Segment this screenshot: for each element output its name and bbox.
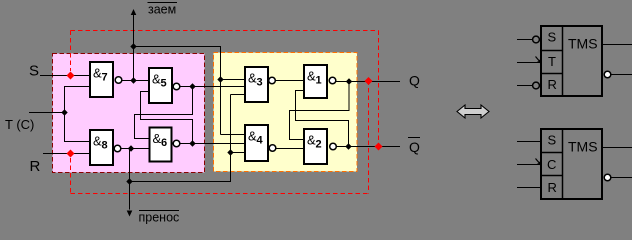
feedback dashed left edge lower	[70, 158, 72, 194]
junction T split	[61, 109, 67, 115]
feedback dashed right edge from node Qbar	[378, 31, 380, 147]
U1 pin T dynamic arrow	[536, 57, 542, 64]
svg-text:пренос: пренос	[139, 211, 180, 225]
svg-text:6: 6	[161, 137, 167, 149]
svg-text:S: S	[548, 133, 557, 148]
svg-text:T: T	[548, 54, 556, 69]
wire Q cross-coupling to gate2	[290, 82, 350, 140]
junction gate8 output	[128, 145, 134, 151]
flip-flop symbol U2 (TMS with S C R)	[541, 129, 602, 199]
svg-text:S: S	[548, 30, 557, 45]
junction gate5 output	[189, 83, 195, 89]
svg-text:R: R	[548, 77, 557, 92]
U1 output Q wire	[603, 44, 632, 46]
U1 pin R inversion bubble	[533, 82, 540, 89]
wire carry branch to slave	[130, 95, 231, 182]
junction gate7 output	[130, 77, 136, 83]
Qbar overline	[408, 137, 420, 139]
U1 pin T wire	[517, 62, 540, 64]
gate 4	[245, 125, 276, 161]
slave (yellow) region	[214, 53, 358, 172]
junction carry branch	[126, 178, 132, 184]
wire gate5 output feedback to gate6	[135, 87, 193, 139]
node R feedback diamond	[67, 150, 75, 158]
gate 6	[150, 128, 180, 162]
gate 3	[245, 67, 275, 102]
U1 pin S inversion bubble	[533, 36, 540, 43]
U2 output Q wire	[603, 147, 632, 149]
U2 output Qbar bubble	[604, 174, 611, 181]
gate 7	[90, 62, 122, 97]
U2 pin R wire	[517, 187, 540, 189]
equivalence double arrow	[457, 105, 489, 118]
wire gate3 output to gate1	[276, 80, 304, 82]
gate 5	[149, 68, 180, 103]
svg-text:заем: заем	[148, 3, 176, 17]
svg-text:TMS: TMS	[568, 36, 598, 52]
master (pink) region	[53, 54, 205, 173]
wire Qbar cross-coupling to gate1	[296, 91, 349, 147]
wire branch to gate3 pin3	[231, 94, 245, 96]
svg-text:S: S	[29, 63, 39, 80]
svg-text:Q: Q	[409, 73, 420, 89]
junction node Qbar	[345, 143, 351, 149]
wire S input	[40, 75, 89, 77]
wire Q output	[336, 81, 400, 83]
wire Qbar output	[337, 146, 401, 148]
feedback dashed bottom edge	[71, 193, 369, 195]
svg-text:1: 1	[316, 75, 322, 87]
U2 pin S wire	[517, 141, 540, 143]
wire gate6 output to gate4	[180, 143, 244, 145]
svg-text:TMS: TMS	[568, 139, 598, 155]
wire gate6 output feedback to gate5	[141, 92, 193, 144]
U1 pin R wire	[517, 85, 533, 87]
feedback dashed top edge	[71, 30, 379, 32]
U2 pin C wire	[517, 164, 540, 166]
gate 8	[90, 130, 121, 165]
wire gate4 output to gate2	[276, 148, 304, 150]
node Qbar feedback diamond	[375, 143, 383, 151]
svg-text:2: 2	[316, 139, 322, 151]
arrowhead carry down	[127, 211, 133, 217]
gate 2	[304, 129, 336, 164]
wire borrow branch to slave	[134, 47, 221, 135]
svg-text:8: 8	[102, 140, 108, 152]
U1 output Qbar bubble	[604, 71, 611, 78]
junction borrow branch	[130, 43, 136, 49]
wire R input	[43, 153, 89, 155]
svg-text:7: 7	[102, 72, 108, 84]
svg-text:4: 4	[257, 135, 264, 147]
wire carry vertical	[129, 149, 131, 210]
wire branch to gate3 pin1	[221, 79, 245, 81]
wire gate8 output to gate6	[121, 148, 149, 150]
svg-text:Q: Q	[409, 139, 420, 155]
U2 output Qbar wire	[611, 177, 632, 179]
svg-text:R: R	[548, 180, 557, 195]
junction node Q	[346, 78, 352, 84]
svg-text:5: 5	[161, 78, 167, 90]
flip-flop symbol U1 (TMS with S T R)	[541, 26, 602, 96]
wire T branch to gate 7	[65, 87, 90, 113]
node S feedback diamond	[67, 72, 75, 80]
wire branch to gate4 pin3	[231, 152, 245, 154]
node Q feedback diamond	[365, 77, 373, 85]
junction gate4 pin3	[227, 149, 233, 155]
wire gate7 output to gate5	[122, 80, 148, 82]
wire T input	[29, 112, 65, 114]
svg-text:R: R	[30, 158, 41, 175]
gate 1	[304, 65, 336, 98]
borrow overline	[148, 2, 178, 4]
wire T branch to gate 8	[65, 113, 90, 142]
feedback dashed left edge upper	[70, 31, 72, 72]
svg-text:C: C	[547, 157, 556, 172]
carry overline	[139, 210, 179, 212]
wire gate5 output to gate3	[180, 86, 244, 88]
junction gate3 pin1	[217, 76, 223, 82]
wire branch to gate4 pin1	[221, 134, 245, 136]
U2 pin C dynamic arrow	[536, 159, 542, 166]
svg-text:T (C): T (C)	[5, 117, 34, 132]
wire borrow vertical	[133, 10, 135, 81]
arrowhead borrow up	[131, 9, 137, 15]
svg-text:3: 3	[257, 77, 263, 89]
U1 pin S wire	[517, 39, 533, 41]
junction gate6 output	[189, 140, 195, 146]
feedback dashed right edge from node Q	[368, 81, 370, 194]
U1 output Qbar wire	[611, 74, 632, 76]
